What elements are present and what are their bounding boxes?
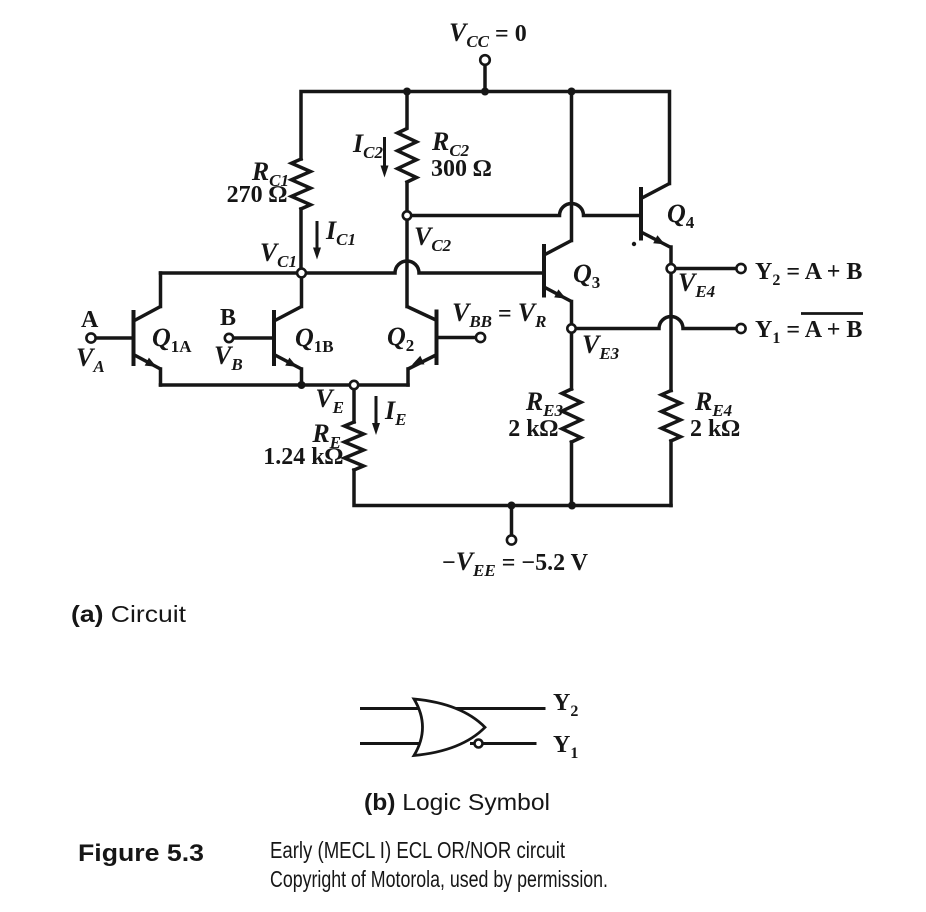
- svg-text:Y2 = A + B: Y2 = A + B: [755, 259, 862, 289]
- svg-text:Copyright of Motorola, used by: Copyright of Motorola, used by permissio…: [270, 866, 608, 892]
- node rail-VCC: [481, 88, 489, 96]
- arrow IC1: [316, 221, 319, 249]
- arrow IC2: [383, 137, 386, 167]
- transistor Q3: [544, 241, 572, 302]
- wire RE4 bottom lead: [669, 441, 673, 506]
- node RE3 bottom: [568, 502, 576, 510]
- wire Q1A collector rise: [159, 273, 163, 307]
- svg-text:VE4: VE4: [678, 268, 715, 301]
- transistor Q1B: [274, 307, 302, 370]
- wire VBB input: [440, 336, 477, 340]
- wire gate input top: [360, 707, 424, 710]
- wire Q1A emitter drop: [159, 369, 163, 385]
- svg-text:Q4: Q4: [667, 199, 695, 232]
- svg-text:VA: VA: [76, 343, 105, 376]
- wire Y2 output: [676, 267, 737, 271]
- wire RC1 bottom lead: [299, 209, 303, 269]
- wire Q2 emitter drop: [406, 369, 410, 385]
- node VEE tap: [508, 502, 516, 510]
- svg-text:(b) Logic Symbol: (b) Logic Symbol: [364, 789, 550, 815]
- resistor RE3: [562, 389, 581, 442]
- wire gate output Y2: [450, 707, 546, 710]
- wire RE bottom to VEE rail: [354, 470, 671, 506]
- OR/NOR gate body: [414, 699, 485, 756]
- svg-text:Q1A: Q1A: [152, 323, 192, 356]
- junction dots: [298, 88, 577, 510]
- node VE3: [567, 324, 575, 332]
- svg-text:IC2: IC2: [352, 129, 383, 162]
- node rail-RC2: [403, 88, 411, 96]
- inversion bubble: [475, 740, 483, 748]
- overline for Y1 equation: [801, 312, 863, 315]
- terminal Y1: [736, 324, 745, 333]
- terminal VBB: [476, 333, 485, 342]
- wire VE to RE top: [352, 389, 356, 422]
- svg-text:Y2: Y2: [553, 690, 578, 720]
- node VE4: [667, 264, 676, 273]
- svg-text:Q2: Q2: [387, 322, 414, 355]
- terminal VEE: [507, 535, 516, 544]
- svg-text:VB: VB: [214, 341, 243, 374]
- transistor Q4: [632, 184, 670, 248]
- node VC2: [403, 211, 411, 219]
- wire A input: [96, 336, 132, 340]
- transistor Q1A: [134, 307, 161, 370]
- node Q1B emitter junction: [298, 381, 306, 389]
- resistor RC2: [398, 92, 417, 182]
- wire VC1 rail with hop over x=407: [161, 261, 543, 273]
- svg-text:A: A: [81, 307, 99, 333]
- wire gate output Y1: [470, 742, 537, 745]
- svg-text:Figure 5.3: Figure 5.3: [78, 840, 204, 867]
- resistor RC1: [292, 159, 311, 209]
- OR gate input wires: [360, 709, 546, 744]
- node VC1: [297, 269, 306, 278]
- wire VC2 to Q4 base with hop over x=571.5: [411, 204, 639, 216]
- terminal B: [225, 334, 233, 342]
- node rail-Q3: [568, 88, 576, 96]
- terminal Y2: [736, 264, 745, 273]
- wire emitter rail VE: [161, 383, 409, 387]
- svg-text:VC1: VC1: [260, 238, 297, 271]
- svg-text:2 kΩ: 2 kΩ: [508, 416, 558, 442]
- stray print dot near Q4: [632, 242, 636, 246]
- svg-text:Early (MECL I) ECL OR/NOR circ: Early (MECL I) ECL OR/NOR circuit: [270, 837, 565, 863]
- svg-text:−VEE = −5.2 V: −VEE = −5.2 V: [442, 547, 589, 580]
- wire Q1B emitter drop: [300, 369, 304, 385]
- svg-text:VE3: VE3: [582, 330, 620, 363]
- wire B input: [233, 336, 272, 340]
- wire Q3 emitter to VE3: [570, 302, 574, 325]
- wire VEE stub: [510, 506, 514, 537]
- wire VCC stub: [483, 65, 487, 92]
- svg-text:VE: VE: [315, 384, 344, 417]
- wire Q4 emitter to VE4: [669, 247, 673, 265]
- terminal A: [86, 333, 95, 342]
- wire RC2 top lead is part of resistor; RC2 bottom lead: [405, 183, 409, 212]
- wire Q3 collector vertical: [570, 92, 574, 241]
- svg-text:Q3: Q3: [573, 259, 600, 292]
- svg-text:VCC = 0: VCC = 0: [449, 18, 527, 51]
- node VE: [350, 381, 358, 389]
- resistor RE: [345, 422, 364, 470]
- wire Y1 output with hop over x=671: [576, 317, 737, 329]
- arrow IE: [375, 396, 378, 425]
- wire VE4 down to RE4: [669, 273, 673, 391]
- transistor Q2: [407, 307, 437, 370]
- svg-text:IE: IE: [384, 396, 406, 429]
- current arrows: [313, 137, 389, 435]
- svg-text:Y1: Y1: [553, 732, 578, 762]
- open node circles: [86, 55, 745, 544]
- wire top rail VCC: [301, 92, 670, 184]
- svg-text:(a) Circuit: (a) Circuit: [71, 601, 187, 627]
- wire Q1B collector rise: [300, 277, 304, 307]
- resistor RE4: [662, 391, 681, 441]
- terminal VCC: [480, 55, 490, 65]
- wire RE3 leads: [570, 333, 574, 390]
- svg-text:1.24 kΩ: 1.24 kΩ: [263, 444, 343, 470]
- svg-text:Y1 = A + B: Y1 = A + B: [755, 317, 862, 347]
- svg-text:IC1: IC1: [325, 216, 356, 249]
- svg-text:Q1B: Q1B: [295, 323, 334, 356]
- wire Q2 collector vertical: [405, 220, 409, 307]
- svg-text:300 Ω: 300 Ω: [431, 156, 491, 182]
- svg-text:VBB = VR: VBB = VR: [452, 298, 546, 331]
- svg-text:2 kΩ: 2 kΩ: [690, 416, 740, 442]
- svg-text:270 Ω: 270 Ω: [227, 182, 287, 208]
- wire gate input bottom: [360, 742, 424, 745]
- svg-text:VC2: VC2: [414, 222, 452, 255]
- svg-text:B: B: [220, 305, 236, 331]
